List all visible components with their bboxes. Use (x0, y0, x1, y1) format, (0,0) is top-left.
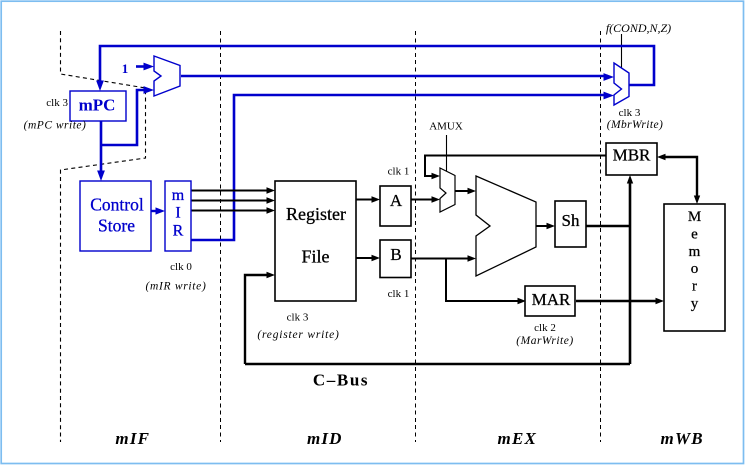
wire constant 1 into mux1 (136, 65, 148, 68)
wire write-back vertical x=630 (C-Bus riser, arrow into MBR bottom) (629, 179, 632, 364)
svg-text:f(COND,N,Z): f(COND,N,Z) (606, 21, 671, 35)
wire Register File to B (356, 257, 374, 259)
wire mIR to Register File (3 lines) (191, 191, 269, 211)
svg-text:clk 3: clk 3 (287, 312, 309, 324)
register mPC (70, 91, 126, 121)
svg-text:clk 0: clk 0 (170, 261, 192, 273)
wire mPC loop to mux1 lower input (101, 90, 148, 145)
latch B (380, 240, 411, 278)
wire mux1 output to mux2 upper input (181, 75, 608, 78)
ALU (476, 176, 536, 276)
wire AMUX to ALU (455, 190, 470, 192)
svg-text:(MbrWrite): (MbrWrite) (607, 119, 663, 131)
wire B line branch down to MAR (446, 259, 520, 302)
svg-text:(register write): (register write) (257, 329, 339, 341)
register MBR (606, 143, 657, 175)
wire MAR to Memory (576, 300, 658, 302)
wire mux2 output loop to mPC (100, 46, 654, 86)
svg-text:o: o (691, 261, 699, 277)
svg-text:m: m (689, 244, 701, 260)
f(COND,N,Z) select line (621, 34, 623, 68)
shifter Sh (555, 201, 586, 247)
svg-text:File: File (301, 247, 329, 267)
wire B to ALU (411, 258, 470, 260)
svg-text:(mIR write): (mIR write) (145, 281, 206, 293)
svg-text:C–Bus: C–Bus (313, 371, 369, 390)
svg-text:A: A (390, 191, 403, 210)
svg-text:clk 3: clk 3 (46, 97, 68, 109)
wire Sh output to write-back vertical (586, 225, 630, 227)
svg-text:MAR: MAR (532, 290, 571, 309)
svg-text:Store: Store (98, 216, 135, 236)
svg-text:clk 1: clk 1 (388, 166, 410, 178)
wire ALU to Sh (536, 225, 549, 227)
svg-text:R: R (173, 223, 184, 240)
svg-text:AMUX: AMUX (429, 121, 463, 133)
wire Control Store to mIR (151, 210, 160, 212)
svg-text:B: B (390, 245, 401, 264)
svg-text:clk 3: clk 3 (619, 107, 641, 119)
mux U2 (next-mPC select mux) (614, 63, 629, 105)
stage boundary mEX/mWB (415, 31, 417, 442)
wire mPC output to Control Store (100, 121, 103, 177)
svg-text:Register: Register (286, 204, 346, 224)
mux U1 (mPC increment mux) (154, 56, 180, 96)
wire C-Bus horizontal (245, 363, 630, 366)
stage boundary mWB/right (600, 31, 602, 442)
svg-text:Sh: Sh (562, 211, 580, 230)
svg-text:m: m (172, 187, 185, 204)
svg-text:M: M (688, 209, 701, 225)
stage boundary mIF/mID (dashed, jogs around mPC) (61, 31, 146, 442)
svg-text:mWB: mWB (661, 429, 704, 448)
svg-text:(MarWrite): (MarWrite) (516, 335, 573, 347)
svg-text:(mPC write): (mPC write) (24, 120, 87, 132)
svg-text:r: r (692, 279, 697, 295)
svg-text:y: y (691, 296, 699, 312)
stage boundary mID/mEX (220, 31, 222, 442)
svg-text:Control: Control (90, 195, 144, 215)
wire Register File to A (356, 199, 374, 201)
Control Store (80, 181, 151, 251)
latch A (380, 186, 411, 226)
svg-text:mIF: mIF (115, 429, 150, 448)
Memory (664, 204, 725, 331)
Register File (275, 181, 356, 301)
AMUX select line (446, 135, 448, 171)
wire mIR to mux2 lower input (191, 95, 608, 240)
svg-text:mEX: mEX (498, 429, 538, 448)
svg-text:clk 2: clk 2 (534, 322, 556, 334)
wire MBR-Memory bidirectional (661, 157, 697, 198)
svg-text:1: 1 (122, 61, 129, 76)
wire C-Bus left riser into Register File (245, 275, 269, 364)
svg-text:MBR: MBR (613, 146, 651, 165)
wire MBR to AMUX (425, 156, 606, 177)
svg-text:mPC: mPC (79, 96, 116, 115)
svg-text:I: I (175, 205, 180, 222)
register MAR (525, 286, 575, 316)
svg-text:e: e (691, 226, 698, 242)
wire A to AMUX (411, 199, 434, 201)
mux AMUX (440, 168, 455, 212)
register mIR (165, 181, 191, 251)
svg-text:mID: mID (307, 429, 343, 448)
svg-text:clk 1: clk 1 (388, 288, 410, 300)
